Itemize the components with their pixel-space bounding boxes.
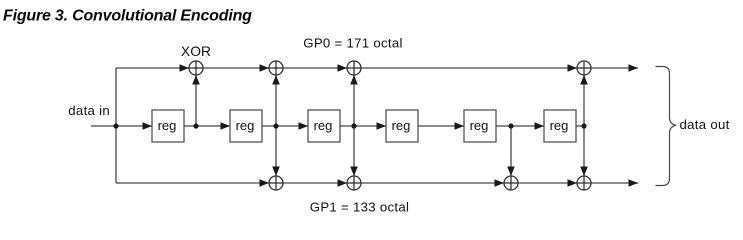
wire: top GP0 line <box>116 67 638 69</box>
wire: main shift line (data in to last tap) <box>91 125 584 127</box>
arrowhead into X3 left <box>338 64 348 72</box>
svg-text:data in: data in <box>68 103 110 118</box>
wire: tap after reg3 down <box>353 126 355 176</box>
wire: tap after reg6 up <box>583 75 585 126</box>
brace data out <box>656 67 677 186</box>
register R3 <box>308 110 340 142</box>
wire: tap after reg3 up <box>353 75 355 126</box>
XOR X4 top (after reg6) <box>577 61 591 75</box>
junction dot: after reg5 <box>508 123 513 128</box>
arrowhead up into X2 <box>272 75 280 85</box>
junction dot: after reg3 <box>351 123 356 128</box>
register R4 <box>386 110 418 142</box>
junction dot: after reg6 <box>581 123 586 128</box>
arrowhead into X8 left <box>568 179 578 187</box>
arrowhead into X2 left <box>260 64 270 72</box>
arrowhead into X5 left <box>260 179 270 187</box>
svg-text:reg: reg <box>550 118 569 133</box>
wire: bottom GP1 line <box>116 182 638 184</box>
register R5 <box>464 110 496 142</box>
wire: tap after reg6 down <box>583 126 585 176</box>
svg-text:XOR: XOR <box>181 44 211 59</box>
svg-text:reg: reg <box>236 118 255 133</box>
svg-text:reg: reg <box>392 118 411 133</box>
svg-text:Figure 3. Convolutional Encodi: Figure 3. Convolutional Encoding <box>3 8 252 25</box>
wire: tap after reg2 down <box>275 126 277 176</box>
junction dot: after reg2 <box>273 123 278 128</box>
junction dot: after reg1 <box>193 123 198 128</box>
svg-text:reg: reg <box>158 118 177 133</box>
XOR X7 bottom (after reg5) <box>504 176 518 190</box>
arrowhead into X4 left <box>568 64 578 72</box>
arrowhead into reg2 <box>221 122 231 130</box>
arrowhead into X6 left <box>338 179 348 187</box>
XOR X8 bottom (after reg6) <box>577 176 591 190</box>
arrowhead down into X6 <box>350 167 358 177</box>
register R2 <box>230 110 262 142</box>
arrowhead into reg5 <box>455 122 465 130</box>
arrowhead down into X5 <box>272 167 280 177</box>
wire: tap after reg1 up <box>195 75 197 126</box>
arrowhead GP0 output <box>629 64 639 72</box>
svg-text:GP1 = 133 octal: GP1 = 133 octal <box>310 200 409 215</box>
arrowhead up into X4 <box>580 75 588 85</box>
arrowhead GP1 output <box>629 179 639 187</box>
register R6 <box>544 110 576 142</box>
svg-text:reg: reg <box>470 118 489 133</box>
wire: tap after reg2 up <box>275 75 277 126</box>
arrowhead up into X3 <box>350 75 358 85</box>
register R1 <box>152 110 184 142</box>
arrowhead into X1 left <box>180 64 190 72</box>
arrowhead into reg1 <box>143 122 153 130</box>
arrowhead down into X8 <box>580 167 588 177</box>
XOR X2 top (after reg2) <box>269 61 283 75</box>
arrowhead down into X7 <box>507 167 515 177</box>
arrowhead into reg3 <box>299 122 309 130</box>
svg-text:reg: reg <box>314 118 333 133</box>
arrowhead up into X1 <box>192 75 200 85</box>
XOR X1 top (after reg1) <box>189 61 203 75</box>
wire: tap after reg5 down <box>510 126 512 176</box>
XOR X3 top (after reg3) <box>347 61 361 75</box>
arrowhead into reg6 <box>535 122 545 130</box>
arrowhead into X7 left <box>495 179 505 187</box>
svg-text:data out: data out <box>680 117 730 132</box>
XOR X6 bottom (after reg3) <box>347 176 361 190</box>
wire: input branch vertical <box>115 68 117 183</box>
junction dot: input branch <box>113 123 118 128</box>
arrowhead into reg4 <box>377 122 387 130</box>
svg-text:GP0 = 171 octal: GP0 = 171 octal <box>303 36 402 51</box>
XOR X5 bottom (after reg2) <box>269 176 283 190</box>
